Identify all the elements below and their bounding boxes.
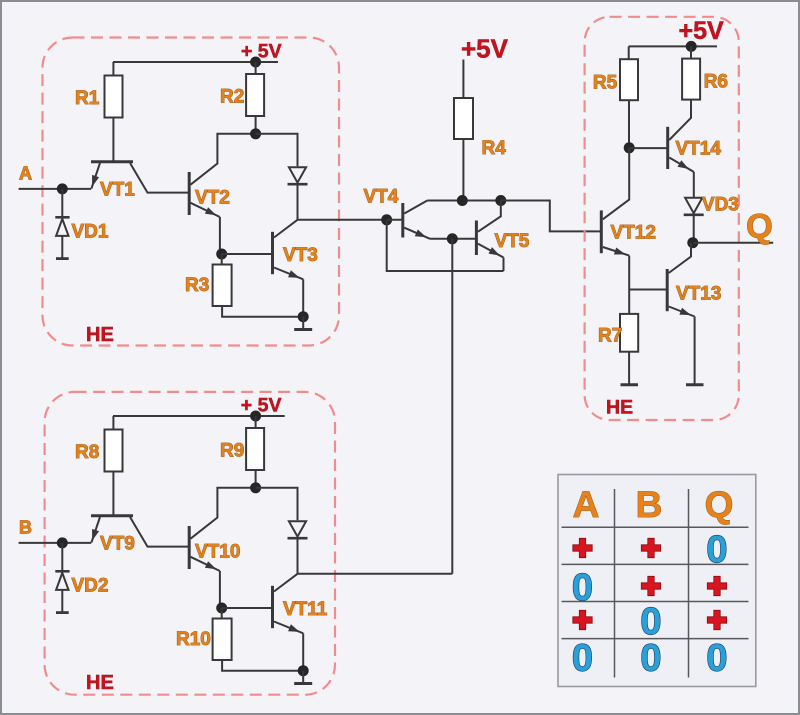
transistor VT14 emitter [669,158,694,172]
wire diode to output node [297,184,299,220]
svg-text:R6: R6 [704,72,728,93]
diode VD2 [55,570,69,573]
resistor R9 [246,428,264,470]
wire R4 top lead [462,60,464,99]
svg-text:R4: R4 [482,138,507,159]
wire to VT12 base [501,201,602,232]
svg-text:+5V: +5V [679,17,725,45]
wire VT13 base [629,289,667,291]
wire R7 bottom lead [628,352,630,384]
svg-text:0: 0 [572,567,593,609]
transistor VT13 base bar [666,269,669,311]
svg-text:A: A [19,164,32,184]
wire VT13 emitter down [694,317,696,385]
transistor VT11 collector [274,574,298,592]
wire R8 bottom lead [112,472,114,515]
node VT3 emitter junction [298,311,309,322]
transistor VT1 collector leg and wire to VT2 [130,163,188,193]
HE block boundary (VD2 side) [45,392,335,695]
node output Q junction [687,237,698,248]
wire VD2 anode lead [61,543,63,571]
resistor R4 [454,98,473,139]
transistor VT13 collector [669,243,691,273]
transistor VT5 collector [478,201,501,232]
wire R5 bottom lead [628,100,630,148]
svg-text:0: 0 [572,637,593,679]
node R4 junction [457,195,468,206]
resistor R2 [246,74,264,116]
transistor VT3 base bar [271,232,274,274]
transistor VT1 emitter [91,163,100,189]
level-shift diode (VT2 collector) [289,167,306,182]
transistor VT9 collector leg and wire to VT10 [130,517,188,547]
wire R10 top lead [221,608,223,619]
svg-text:VT9: VT9 [100,534,135,555]
node VT5 collector junction [495,195,506,206]
wire R2 node to diode [256,134,298,167]
wire to ground (VT3) [302,317,304,329]
svg-text:VT5: VT5 [495,231,530,252]
svg-text:R5: R5 [593,73,618,94]
svg-text:VT13: VT13 [676,284,721,305]
transistor VT5 emitter [478,244,504,258]
node input A [57,183,68,194]
node input B [57,537,68,548]
svg-text:0: 0 [706,529,727,571]
wire VT5 emitter down [503,258,505,272]
svg-text:HE: HE [86,324,114,346]
truth table column dividers [614,489,616,678]
wire VT12 emitter down [628,256,630,314]
wire VT14 emitter to VD3 [693,172,695,197]
wire VT4 base [387,219,403,221]
wire +5V rail (R1 block) [113,61,278,63]
wire input B [19,542,92,544]
svg-text:VT1: VT1 [100,180,135,201]
resistor R8 [105,430,123,472]
wire VT14 base [629,147,668,149]
wire VD2 bottom lead [61,590,63,612]
wire R9 node to diode [256,488,298,521]
truth table cell row3 col A: plus [573,610,592,629]
svg-text:Q: Q [746,208,773,246]
wire block output [298,573,453,575]
HE block boundary (VD1 side) [43,38,340,346]
svg-text:0: 0 [640,637,661,679]
svg-text:R1: R1 [75,88,100,109]
truth table cell row3 col Q: plus [707,610,726,629]
transistor VT4 collector [404,201,427,214]
truth table cell row1 col A: plus [573,538,592,557]
wire VT3 emitter down [302,279,304,316]
wire VD1 anode lead [61,189,63,217]
resistor R3 [213,265,232,307]
svg-text:VT3: VT3 [283,245,318,266]
node VT4 emitter junction [447,233,458,244]
wire block output [298,219,387,221]
diode VD1 [55,216,69,219]
transistor VT9 base bar [91,514,133,517]
transistor VT2 emitter [191,203,220,217]
svg-text:VT12: VT12 [611,223,656,244]
node VT4 base junction [381,214,392,225]
truth table cell row2 col B: plus [641,576,660,595]
svg-text:R2: R2 [220,87,244,108]
node R3 base junction [216,249,227,260]
wire R2 top lead [255,62,257,74]
transistor VT13 emitter [669,307,695,317]
diode VD3 [685,198,702,213]
svg-text:R10: R10 [176,629,211,650]
ground (VT3 emitter) [294,328,312,331]
svg-text:VT14: VT14 [676,139,722,160]
transistor VT4 base bar [401,203,404,238]
truth table row dividers [562,526,749,528]
transistor VT10 base bar [188,526,191,569]
wire VD1 bottom lead [61,236,63,258]
transistor VT12 base bar [600,210,603,253]
resistor R7 [620,314,638,352]
svg-text:VT10: VT10 [195,542,240,563]
svg-text:A: A [573,484,600,525]
transistor VT14 base bar [666,127,669,169]
wire R5 top lead [628,46,630,59]
resistor R6 [682,59,700,100]
truth table cell row2 col Q: plus [707,576,726,595]
wire R8 top lead [112,416,114,430]
wire diode to output node [297,538,299,574]
svg-text:+5V: +5V [461,34,509,64]
svg-text:R7: R7 [598,326,622,347]
svg-text:VD3: VD3 [702,195,739,216]
wire to ground (VT11) [302,671,304,683]
truth table background [558,475,756,687]
wire VT11 emitter down [302,633,304,670]
resistor R5 [620,59,638,100]
transistor VT2 base bar [188,172,191,215]
wire R2 bottom lead [255,116,257,134]
node R10 base junction [216,603,227,614]
svg-text:B: B [636,484,663,525]
svg-text:0: 0 [706,637,727,679]
transistor VT1 base bar [91,160,133,163]
wire input A [19,188,92,190]
terminal bar below VD2 [56,611,69,614]
wire R10 bottom to emitter node [222,660,303,671]
node VT11 emitter junction [298,665,309,676]
transistor VT12 emitter [603,247,629,256]
wire R9 bottom lead [255,470,257,488]
node VT14 base junction [624,142,635,153]
node +5V rail junction (R9 top) [250,411,261,422]
wire R3 bottom to emitter node [222,306,303,317]
wire R4 bottom lead [462,139,464,201]
ground (R7) [621,383,639,386]
transistor VT3 collector [274,220,298,238]
transistor VT5 base bar [475,221,478,256]
resistor R10 [213,619,232,661]
transistor VT11 base bar [271,586,274,628]
node R2 bottom junction [250,128,261,139]
wire VT4/VT5 collector rail [427,200,550,202]
ground (VT11 emitter) [294,682,312,685]
transistor VT11 emitter [274,622,303,634]
svg-text:VT4: VT4 [364,187,399,208]
svg-text:B: B [19,518,32,538]
transistor VT10 emitter [191,557,220,571]
wire VT3 base [222,253,273,255]
wire R6 top lead [690,46,692,58]
ground (VT13 emitter) [686,383,704,386]
svg-text:+ 5V: + 5V [241,41,282,63]
wire R6 bottom lead and VT14 collector [669,100,691,140]
wire R1 bottom lead [112,118,114,161]
resistor R1 [105,76,123,118]
level-shift diode (VT10 collector) [289,521,306,536]
wire VT4 emitter to VT5 base [430,238,476,240]
transistor VT10 collector [191,488,256,539]
wire VD3 to output node [693,215,695,243]
svg-text:Q: Q [705,484,734,525]
svg-text:HE: HE [606,397,633,419]
svg-text:R8: R8 [75,442,99,463]
wire R3 top lead [221,254,223,265]
wire middle feedback vertical [451,239,453,574]
svg-text:VD1: VD1 [72,222,109,243]
wire output Q [693,242,773,244]
wire VT2 emitter to R3 node [219,217,221,254]
wire VT11 base [222,607,273,609]
node R9 bottom junction [250,482,261,493]
wire R1 top lead [112,62,114,76]
wire VT10 emitter to R10 node [219,571,221,608]
HE block boundary (output stage) [585,17,739,420]
svg-text:VT11: VT11 [283,599,328,620]
terminal bar below VD1 [56,257,69,260]
wire R9 top lead [255,416,257,428]
transistor VT2 collector [191,134,256,185]
wire +5V rail (R8 block) [113,415,285,417]
transistor VT3 emitter [274,268,303,280]
node +5V rail junction (R6 top) [686,41,697,52]
svg-text:VD2: VD2 [72,576,109,597]
svg-text:VT2: VT2 [195,188,230,209]
wire VT4 emitter return rail [387,220,504,271]
wire +5V rail (output stage) [629,45,717,47]
svg-text:+ 5V: + 5V [241,395,282,417]
truth table cell row1 col B: plus [641,538,660,557]
transistor VT9 emitter [91,517,100,543]
transistor VT4 emitter [404,228,430,239]
svg-text:HE: HE [86,672,114,694]
svg-text:R3: R3 [185,275,209,296]
transistor VT12 collector [603,148,629,220]
node +5V rail junction (R2 top) [250,57,261,68]
svg-text:R9: R9 [220,441,244,462]
